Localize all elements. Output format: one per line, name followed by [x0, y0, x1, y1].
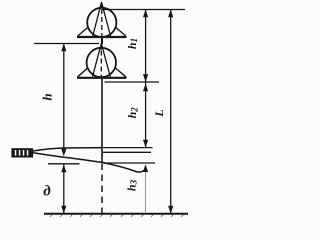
pole (dashed lower part): [101, 164, 103, 215]
arrow h bottom (down, on sag wire): [61, 149, 66, 157]
arrow h2 top (up): [143, 84, 148, 92]
dimension h2 line (right): [145, 82, 147, 148]
insulator I1 right foot: [115, 27, 126, 36]
insulator I1 circle: [87, 8, 116, 37]
insulator I1 pin triangle: [93, 2, 111, 37]
sagging lower service wire: [33, 153, 145, 172]
axis dashed in I2: [100, 51, 102, 78]
arrow L top (up): [168, 10, 173, 18]
arrow d top (up, at line B): [61, 165, 66, 173]
crossarm 1: [77, 36, 127, 38]
svg-text:L: L: [152, 109, 166, 117]
arrow h3 (up, at lowest wire level): [143, 164, 148, 172]
arrow h1 bottom (down): [143, 74, 148, 82]
insulator I2 right foot: [115, 68, 126, 78]
insulator tip top (pin of insulator 1): [99, 1, 104, 8]
insulator I2 left foot: [77, 68, 88, 78]
arrow h top (up): [61, 44, 66, 52]
arrow h1 top (up): [143, 10, 148, 18]
insulator I2 pin triangle: [92, 44, 110, 78]
insulator tip of insulator 2: [99, 43, 104, 50]
wall box (building attachment, hatched): [11, 148, 33, 157]
axis dashed in I1: [101, 9, 103, 36]
pole (solid part): [101, 79, 103, 163]
svg-text:д: д: [43, 184, 51, 200]
arrow L bottom (down): [168, 206, 173, 214]
arrow h2 bottom (down): [143, 140, 148, 148]
ground line: [44, 213, 188, 215]
extension line lowest point right of pole: [103, 162, 155, 164]
extension line B left (lowest wire level): [48, 163, 80, 165]
extension line wire 2 level (left): [34, 43, 99, 45]
upper service wire from box to pole: [33, 148, 103, 151]
ground hatching: [50, 215, 184, 217]
extension line A right of pole: [103, 147, 153, 149]
arrow d bottom (down, at ground): [61, 206, 66, 214]
dimension L line (far right): [170, 10, 172, 214]
dimension h3 faint line to ground: [145, 172, 147, 214]
extension line top (wire 1 level): [103, 9, 186, 11]
dimension h1 line (right): [145, 10, 147, 83]
svg-text:h: h: [39, 93, 54, 100]
dimension h line (left column): [63, 44, 65, 149]
pole stem between I1 and I2: [101, 38, 103, 44]
extension line second right of pole: [103, 151, 151, 153]
dimension d line (left column lower): [63, 165, 65, 214]
crossarm 2: [77, 77, 127, 79]
insulator I2 circle: [87, 48, 116, 77]
extension line below crossarm 2: [105, 81, 160, 83]
insulator I1 left foot: [77, 27, 88, 36]
